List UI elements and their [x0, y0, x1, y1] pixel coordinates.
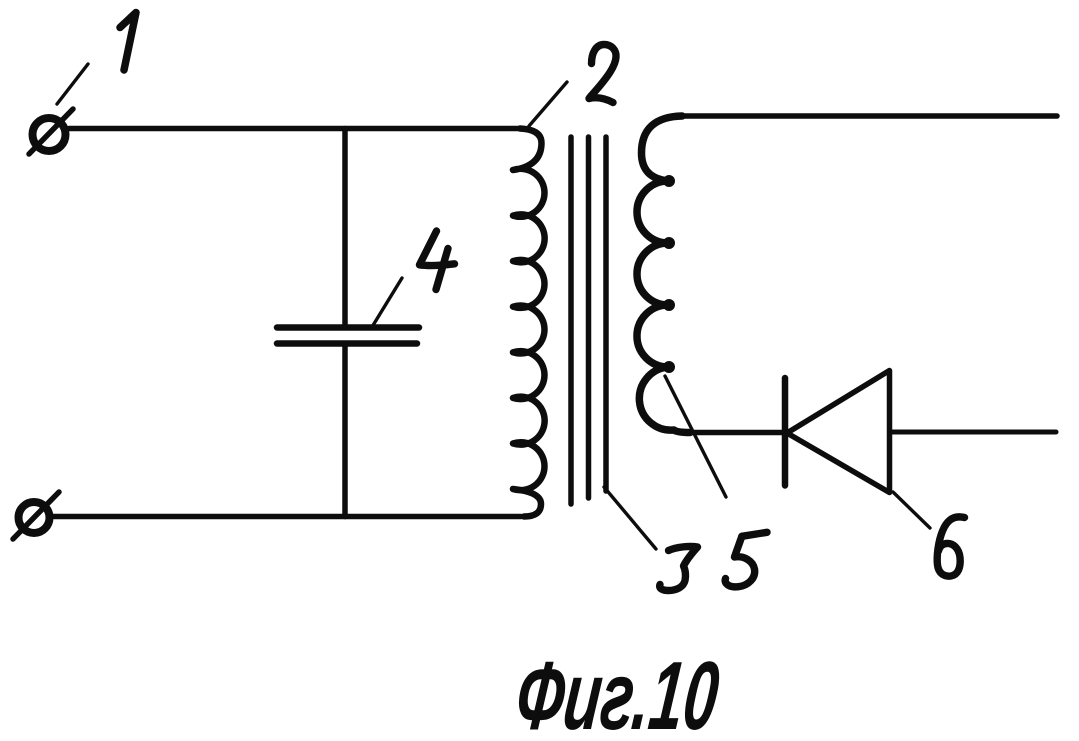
svg-text:Фиг.10: Фиг.10	[511, 642, 724, 741]
